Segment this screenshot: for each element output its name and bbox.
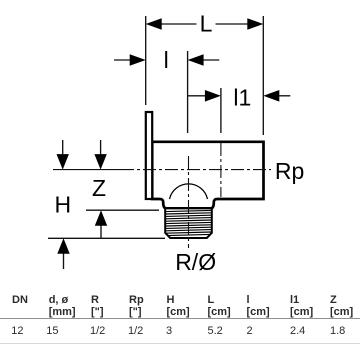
svg-text:Rp: Rp [275, 158, 304, 184]
svg-text:l1: l1 [233, 85, 251, 111]
svg-text:l: l [164, 47, 169, 73]
svg-text:L: L [200, 11, 213, 37]
svg-text:H: H [55, 192, 72, 218]
svg-text:R/Ø: R/Ø [175, 249, 216, 275]
svg-text:Z: Z [92, 175, 106, 201]
